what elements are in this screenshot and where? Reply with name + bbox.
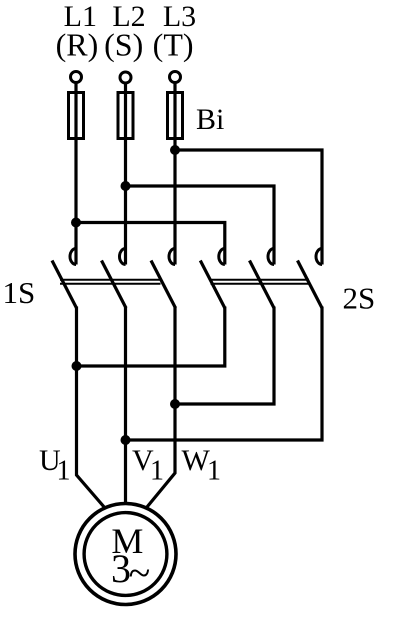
wire 1S pole2 to motor V: [124, 307, 127, 505]
wire L3 to 2S pole c: [175, 150, 322, 265]
1S pole 3 blade: [151, 261, 176, 309]
2S pole 2 blade: [250, 261, 275, 309]
wire phase L1 vertical: [74, 83, 77, 265]
terminal L1: [71, 72, 82, 83]
junction dot V: [121, 435, 131, 445]
svg-text:(T): (T): [153, 27, 194, 63]
1S pole 2 fixed contact: [120, 249, 126, 265]
1S pole 3 fixed contact: [169, 249, 175, 265]
svg-text:1S: 1S: [3, 275, 36, 310]
motor outer circle: [75, 504, 176, 605]
wire 1S pole1 to motor U: [77, 307, 106, 509]
svg-text:~: ~: [129, 551, 151, 596]
svg-text:Bi: Bi: [196, 103, 224, 136]
motor inner circle: [84, 513, 167, 596]
label U1: [39, 444, 71, 487]
terminal L2: [120, 72, 131, 83]
svg-text:1: 1: [150, 456, 164, 487]
wire V cross-feed to 2S pole 3: [126, 307, 323, 441]
svg-text:1: 1: [207, 456, 221, 487]
wire U cross-feed to 2S pole 1: [77, 307, 225, 367]
junction dot L3: [170, 145, 180, 155]
2S pole 3 fixed contact: [316, 249, 322, 265]
1S pole 2 blade: [102, 261, 127, 309]
wire L1 to 2S pole a: [76, 223, 225, 265]
junction dot L2: [121, 181, 131, 191]
junction dot W: [170, 399, 180, 409]
junction dot L1: [71, 218, 81, 228]
1S pole 1 blade: [52, 261, 77, 309]
wire phase L2 vertical: [124, 83, 127, 265]
svg-text:1: 1: [57, 456, 71, 487]
terminal L3: [170, 72, 181, 83]
switch 1S linkage bar: [60, 280, 161, 284]
label V1: [132, 444, 164, 487]
2S pole 1 blade: [200, 261, 225, 309]
2S pole 2 fixed contact: [268, 249, 274, 265]
motor label 3~: [111, 546, 150, 596]
switch 2S linkage bar: [211, 280, 310, 284]
wire 1S pole3 to motor W: [147, 307, 175, 508]
svg-text:(R): (R): [56, 27, 99, 63]
fuse F1: [69, 93, 84, 139]
wire phase L3 vertical: [173, 83, 176, 265]
wire W cross-feed to 2S pole 2: [175, 307, 274, 405]
2S pole 1 fixed contact: [219, 249, 225, 265]
fuse F3: [168, 93, 183, 139]
label W1: [182, 444, 222, 487]
2S pole 3 blade: [298, 261, 323, 309]
1S pole 1 fixed contact: [70, 249, 76, 265]
svg-text:2S: 2S: [343, 281, 376, 316]
fuse F2: [118, 93, 133, 139]
junction dot U: [72, 361, 82, 371]
svg-text:(S): (S): [104, 27, 143, 63]
wire L2 to 2S pole b: [126, 186, 275, 265]
